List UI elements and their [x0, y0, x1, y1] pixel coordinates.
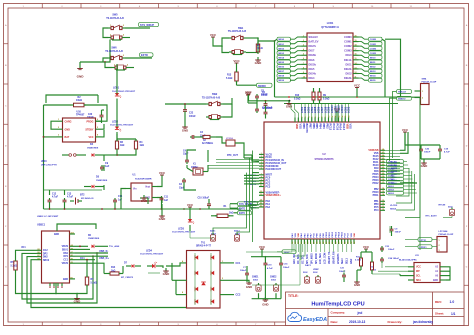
resistor R10 — [312, 88, 315, 104]
wire — [400, 132, 408, 153]
svg-text:DIG4b: DIG4b — [309, 71, 317, 75]
svg-text:21: 21 — [314, 242, 316, 244]
svg-text:VCC: VCC — [210, 33, 217, 37]
node CC2 — [236, 294, 241, 297]
wire — [421, 153, 440, 160]
ground — [163, 268, 171, 276]
svg-text:HumiTempLCD CPU: HumiTempLCD CPU — [311, 301, 364, 307]
capacitor C10 — [198, 197, 212, 209]
svg-text:15: 15 — [295, 242, 297, 244]
pad GND2 — [270, 277, 279, 292]
svg-text:COM0: COM0 — [370, 39, 377, 41]
node VLCD2 — [390, 205, 398, 211]
svg-text:SEL1: SEL1 — [347, 258, 349, 264]
node SWDIO — [397, 96, 415, 100]
power VCC — [210, 33, 217, 40]
svg-text:LCD2: LCD2 — [348, 106, 351, 113]
power VCC — [259, 245, 266, 252]
power VCC — [187, 203, 194, 210]
svg-text:1uF: 1uF — [118, 199, 123, 201]
svg-text:15pF: 15pF — [183, 154, 189, 156]
EasyEDA logo — [288, 312, 327, 322]
svg-text:DP2: DP2 — [43, 253, 48, 255]
wire — [252, 172, 259, 174]
svg-text:8: 8 — [322, 117, 324, 118]
svg-text:2: 2 — [58, 127, 59, 129]
svg-text:47: 47 — [382, 151, 384, 154]
svg-text:3: 3 — [110, 35, 111, 37]
node USB_D+ — [75, 256, 109, 260]
svg-text:GND: GND — [65, 128, 71, 131]
svg-text:15: 15 — [345, 116, 347, 118]
power VCC — [245, 91, 252, 98]
connector SW4 — [415, 77, 437, 104]
svg-text:TS-1187A-B-A-B: TS-1187A-B-A-B — [106, 17, 124, 20]
small part Q1 — [226, 137, 235, 146]
crystal X1 — [187, 164, 208, 175]
power VCC — [159, 171, 166, 178]
wire — [125, 37, 130, 39]
wire — [190, 231, 213, 238]
svg-text:C5 100nF: C5 100nF — [263, 108, 274, 110]
svg-text:VBUS: VBUS — [62, 263, 69, 265]
svg-text:R10: R10 — [295, 95, 300, 97]
svg-text:7: 7 — [318, 117, 320, 118]
svg-text:C12: C12 — [52, 193, 57, 195]
diode D4 — [87, 143, 104, 157]
node LPRX1 — [405, 245, 437, 249]
wire bundle — [396, 168, 415, 210]
svg-text:2: 2 — [439, 245, 440, 247]
svg-text:GND: GND — [54, 234, 59, 236]
switch SW5 — [106, 14, 125, 30]
svg-text:C11: C11 — [164, 197, 169, 199]
svg-text:VSS: VSS — [349, 124, 353, 130]
svg-text:USB_D+: USB_D+ — [99, 257, 109, 260]
svg-text:VCC: VCC — [159, 171, 166, 175]
svg-text:5002: 5002 — [271, 280, 277, 282]
pad RTCIN — [426, 204, 455, 217]
svg-text:LED2: LED2 — [112, 120, 119, 123]
wire bus entries to MCU top — [291, 104, 351, 123]
resistor R12 — [370, 252, 376, 272]
svg-text:39: 39 — [382, 176, 384, 178]
node USB_D- — [75, 250, 108, 253]
capacitor C6 — [261, 92, 268, 107]
svg-text:TITLE:: TITLE: — [288, 294, 299, 298]
svg-text:SEG1: SEG1 — [370, 62, 377, 64]
wire — [275, 39, 386, 97]
svg-text:12: 12 — [355, 72, 357, 74]
svg-text:GND: GND — [255, 61, 263, 65]
svg-text:JMP-2-NO-PTH: JMP-2-NO-PTH — [41, 164, 57, 166]
svg-text:AD11: AD11 — [210, 230, 216, 233]
capacitor C7 — [240, 266, 249, 282]
svg-text:GND: GND — [163, 272, 171, 276]
svg-text:WP: WP — [416, 271, 420, 273]
wire — [213, 38, 229, 53]
svg-text:3: 3 — [439, 250, 440, 252]
svg-text:16: 16 — [260, 206, 262, 208]
svg-text:P225xR-11-02P: P225xR-11-02P — [439, 234, 454, 236]
wire mcu right fan — [385, 150, 400, 185]
svg-text:28: 28 — [335, 242, 337, 244]
svg-text:3: 3 — [305, 117, 307, 118]
capacitor C4 — [183, 149, 189, 164]
svg-text:24: 24 — [322, 242, 325, 244]
wire — [405, 97, 420, 218]
svg-text:UC1: UC1 — [21, 247, 26, 249]
wire — [381, 246, 383, 268]
svg-text:DIG6: DIG6 — [309, 58, 316, 62]
svg-text:5: 5 — [97, 127, 98, 129]
svg-text:SEG3: SEG3 — [388, 193, 395, 195]
svg-text:R13: R13 — [227, 74, 232, 76]
wire — [275, 96, 401, 103]
power VCC — [354, 83, 361, 97]
resistor R7 — [85, 259, 97, 287]
svg-text:VDD: VDD — [354, 232, 356, 237]
switch SW1 — [228, 27, 247, 55]
pad GND1 — [252, 277, 261, 292]
wire — [16, 272, 57, 294]
capacitor C3 — [190, 132, 206, 139]
wire — [393, 92, 397, 159]
node EXTO — [140, 53, 154, 57]
svg-text:SEG0: SEG0 — [278, 39, 285, 41]
svg-text:VCC: VCC — [259, 245, 266, 249]
svg-text:GND: GND — [421, 164, 429, 168]
svg-text:22: 22 — [317, 242, 319, 244]
wire — [258, 40, 275, 42]
svg-text:32: 32 — [348, 242, 350, 244]
svg-text:VCC: VCC — [402, 128, 409, 132]
svg-text:CC1: CC1 — [236, 262, 241, 265]
svg-text:14: 14 — [341, 116, 344, 118]
svg-text:EasyEDA: EasyEDA — [303, 317, 327, 323]
svg-text:1: 1 — [110, 55, 111, 57]
wire — [216, 137, 244, 155]
capacitor C28 — [390, 226, 402, 236]
ground — [262, 297, 268, 307]
wire — [237, 81, 257, 85]
svg-text:DIG2: DIG2 — [346, 71, 353, 75]
wire — [216, 160, 259, 163]
node SWCLK — [397, 90, 412, 94]
svg-text:STDBY: STDBY — [85, 128, 94, 131]
wire — [229, 204, 231, 209]
svg-text:Vin: Vin — [133, 188, 137, 190]
svg-text:19-217/GHC-YR1S2/3T: 19-217/GHC-YR1S2/3T — [140, 254, 164, 256]
MCU U2 STM32L052R8T6 — [259, 118, 385, 245]
wire — [27, 252, 98, 303]
LED LED2 — [110, 104, 134, 141]
svg-text:34: 34 — [353, 242, 356, 244]
resistor R2 — [72, 96, 87, 107]
resistor R5 — [11, 247, 27, 272]
svg-text:10: 10 — [260, 182, 262, 184]
svg-text:29: 29 — [338, 242, 340, 244]
svg-text:14: 14 — [355, 62, 357, 65]
resistor R1 — [211, 206, 234, 218]
svg-text:SEG4: SEG4 — [278, 56, 285, 59]
node SYS_WKUP mcu — [244, 202, 259, 210]
svg-text:RTC_OUT: RTC_OUT — [227, 155, 238, 157]
resistor R13 — [226, 66, 238, 83]
svg-text:LCD_SEG: LCD_SEG — [320, 253, 322, 264]
wire — [22, 253, 94, 299]
svg-text:48: 48 — [382, 148, 384, 151]
svg-text:GND: GND — [262, 303, 268, 307]
svg-text:11: 11 — [332, 116, 334, 118]
capacitor C13 — [63, 193, 74, 204]
svg-text:1N5819WS: 1N5819WS — [96, 180, 108, 182]
svg-text:SW5: SW5 — [112, 14, 118, 17]
svg-text:DP1: DP1 — [64, 256, 69, 258]
svg-text:43: 43 — [382, 163, 384, 166]
ground — [141, 195, 147, 203]
svg-text:5.1kΩ: 5.1kΩ — [323, 98, 329, 100]
svg-text:19-217/GHC-YR1S2/3T: 19-217/GHC-YR1S2/3T — [110, 125, 134, 127]
svg-text:SEG9: SEG9 — [278, 80, 285, 82]
wire — [187, 150, 208, 162]
node SYS_WKUP — [139, 23, 159, 27]
power VCC — [363, 245, 370, 252]
svg-text:DIG5b: DIG5b — [309, 62, 317, 66]
svg-text:SEG3: SEG3 — [370, 71, 377, 73]
svg-text:32.768kHz: 32.768kHz — [202, 143, 214, 145]
svg-text:GND: GND — [182, 129, 188, 133]
svg-text:100nF: 100nF — [339, 271, 346, 273]
svg-text:1: 1 — [439, 240, 440, 242]
diode D7 — [121, 262, 134, 278]
svg-text:USART_RX: USART_RX — [332, 251, 335, 264]
svg-text:G: G — [466, 266, 468, 268]
wire — [344, 266, 372, 282]
svg-text:C22: C22 — [189, 113, 194, 115]
svg-text:5.1kΩ: 5.1kΩ — [226, 78, 232, 80]
svg-text:Sheet:: Sheet: — [435, 312, 444, 316]
resistor R4 — [134, 139, 144, 151]
svg-text:1/1: 1/1 — [451, 312, 456, 316]
svg-text:VCC: VCC — [187, 203, 194, 207]
svg-text:REV:: REV: — [435, 300, 442, 304]
svg-text:SEL0: SEL0 — [342, 258, 344, 264]
svg-text:VDDA/VREF+: VDDA/VREF+ — [266, 194, 282, 197]
ground — [354, 279, 360, 287]
svg-text:2: 2 — [302, 117, 304, 118]
svg-text:100nF: 100nF — [395, 232, 402, 234]
svg-text:4.7uF: 4.7uF — [67, 196, 74, 199]
battery BT2 — [70, 193, 94, 204]
svg-text:SPI_MOSI: SPI_MOSI — [316, 253, 318, 264]
capacitor C23 — [380, 246, 395, 252]
svg-text:1uF: 1uF — [105, 165, 110, 168]
wire — [400, 97, 420, 250]
svg-text:41: 41 — [382, 169, 384, 172]
svg-text:4.7uF: 4.7uF — [267, 267, 273, 270]
svg-text:MY-24SG-01: MY-24SG-01 — [81, 197, 94, 200]
svg-text:COM1: COM1 — [370, 44, 377, 46]
ground — [246, 280, 252, 289]
wire — [252, 267, 281, 299]
svg-text:VCC: VCC — [354, 83, 361, 87]
svg-text:18: 18 — [355, 45, 357, 47]
svg-text:11: 11 — [355, 76, 357, 78]
svg-text:19: 19 — [355, 40, 357, 42]
svg-text:8: 8 — [303, 67, 304, 69]
svg-text:AD13: AD13 — [234, 230, 240, 233]
svg-text:AIN2: AIN2 — [350, 258, 353, 264]
svg-text:4.7uF: 4.7uF — [444, 150, 450, 153]
svg-text:3: 3 — [58, 135, 59, 137]
svg-text:1kΩ: 1kΩ — [120, 145, 125, 147]
svg-text:USBC1: USBC1 — [37, 224, 46, 227]
wire — [344, 226, 390, 273]
svg-text:DIG1b: DIG1b — [344, 58, 352, 62]
svg-text:32: 32 — [382, 203, 384, 205]
wire — [184, 184, 196, 190]
svg-text:VSS: VSS — [295, 233, 297, 238]
svg-text:19-217/GHC-YR1S2/3T: 19-217/GHC-YR1S2/3T — [172, 232, 196, 234]
node SEG bus left fan — [277, 37, 302, 82]
svg-text:LED4: LED4 — [146, 249, 153, 252]
wire — [104, 151, 136, 156]
switch SW5 part B — [108, 34, 125, 41]
svg-text:GND: GND — [354, 283, 360, 287]
svg-text:34: 34 — [382, 193, 384, 196]
svg-text:5002: 5002 — [253, 280, 259, 282]
wire — [56, 283, 77, 296]
svg-text:17: 17 — [355, 49, 357, 51]
svg-text:VCC: VCC — [88, 136, 93, 139]
svg-text:C24 100nF: C24 100nF — [388, 257, 400, 260]
svg-text:SW6: SW6 — [111, 46, 117, 49]
svg-text:13: 13 — [338, 116, 340, 118]
svg-text:100nF: 100nF — [189, 116, 196, 118]
wire — [76, 285, 87, 294]
svg-text:23: 23 — [320, 242, 322, 244]
wire — [295, 244, 305, 256]
ground — [77, 62, 85, 79]
svg-text:SEG0: SEG0 — [370, 57, 377, 59]
resistor R11 — [355, 252, 363, 268]
svg-text:STM32L052R8T6: STM32L052R8T6 — [314, 158, 334, 161]
svg-text:6: 6 — [261, 168, 262, 170]
svg-text:15: 15 — [260, 203, 262, 205]
svg-text:PC3: PC3 — [266, 185, 271, 188]
svg-text:36: 36 — [382, 188, 384, 190]
wire — [125, 27, 150, 29]
svg-text:7: 7 — [261, 173, 262, 175]
LED LED4 — [140, 249, 164, 268]
capacitor C12 — [48, 193, 59, 204]
diode D6 — [75, 235, 120, 248]
svg-text:4: 4 — [303, 48, 304, 51]
svg-text:DIG7b: DIG7b — [309, 44, 317, 48]
svg-text:SRV05-4-P-T7: SRV05-4-P-T7 — [196, 245, 212, 248]
svg-text:3: 3 — [261, 159, 262, 161]
svg-text:3: 3 — [114, 65, 115, 67]
svg-text:37: 37 — [382, 182, 384, 184]
svg-text:33: 33 — [382, 200, 384, 202]
wire — [31, 260, 203, 308]
svg-text:4: 4 — [261, 161, 262, 164]
svg-text:2: 2 — [123, 25, 124, 27]
svg-text:5: 5 — [312, 117, 314, 118]
svg-text:BT2: BT2 — [80, 193, 85, 196]
power VCC — [233, 59, 240, 66]
IC U1 — [126, 174, 157, 201]
wire — [378, 267, 408, 271]
svg-text:5: 5 — [303, 54, 304, 56]
svg-text:C13: C13 — [67, 193, 72, 195]
svg-text:SEG2: SEG2 — [278, 48, 285, 50]
svg-text:40: 40 — [382, 172, 384, 175]
wire — [117, 134, 136, 141]
svg-text:PB11: PB11 — [373, 194, 380, 197]
svg-text:31: 31 — [345, 242, 347, 244]
svg-text:GND: GND — [74, 300, 82, 304]
svg-text:100nF: 100nF — [240, 270, 247, 272]
svg-text:10: 10 — [303, 76, 305, 78]
node CC1 — [236, 262, 241, 265]
svg-text:PH1/OSCOUT: PH1/OSCOUT — [266, 168, 282, 171]
wire — [80, 40, 110, 63]
svg-text:100nF: 100nF — [388, 249, 395, 251]
svg-text:JP10: JP10 — [41, 160, 47, 163]
svg-text:COM3: COM3 — [370, 53, 377, 55]
crystal X2 — [196, 135, 216, 145]
node CC1 usb — [75, 258, 95, 260]
svg-text:TS-1187A-B-A-B: TS-1187A-B-A-B — [228, 30, 247, 33]
svg-text:TVL_AGN: TVL_AGN — [109, 245, 120, 248]
svg-text:SEG2: SEG2 — [370, 67, 377, 69]
svg-text:9: 9 — [325, 117, 327, 118]
wire — [252, 154, 259, 161]
jumper JP10 — [41, 154, 86, 167]
svg-text:SPI_MISO: SPI_MISO — [311, 253, 313, 264]
svg-text:C10 100uF: C10 100uF — [198, 197, 210, 199]
svg-text:SEG4: SEG4 — [370, 75, 377, 78]
svg-text:COM1: COM1 — [344, 40, 352, 44]
wire — [43, 136, 45, 209]
IC U10 — [57, 110, 102, 142]
svg-text:2: 2 — [123, 55, 124, 57]
svg-text:SEG7: SEG7 — [278, 71, 285, 73]
node bottom net labels — [293, 244, 353, 264]
capacitor C2 — [179, 178, 186, 189]
svg-text:27: 27 — [332, 242, 334, 244]
svg-text:26: 26 — [329, 242, 331, 244]
svg-text:jnd: jnd — [357, 311, 363, 315]
svg-text:SPI_SCK: SPI_SCK — [307, 254, 309, 264]
switch SW6 — [105, 46, 125, 59]
node right net stack — [387, 160, 417, 195]
svg-text:100nF: 100nF — [261, 95, 268, 97]
capacitor C21 — [339, 268, 346, 279]
svg-text:USB_D-: USB_D- — [99, 250, 108, 253]
svg-text:TV1: TV1 — [201, 243, 206, 245]
svg-text:LED1: LED1 — [113, 87, 120, 90]
svg-text:GND: GND — [63, 279, 68, 281]
svg-text:CHRG: CHRG — [65, 120, 72, 123]
svg-text:PB10: PB10 — [326, 231, 328, 237]
wire — [157, 178, 162, 203]
svg-text:19: 19 — [307, 242, 309, 244]
svg-text:PA2: PA2 — [266, 206, 271, 209]
wire — [140, 198, 148, 204]
